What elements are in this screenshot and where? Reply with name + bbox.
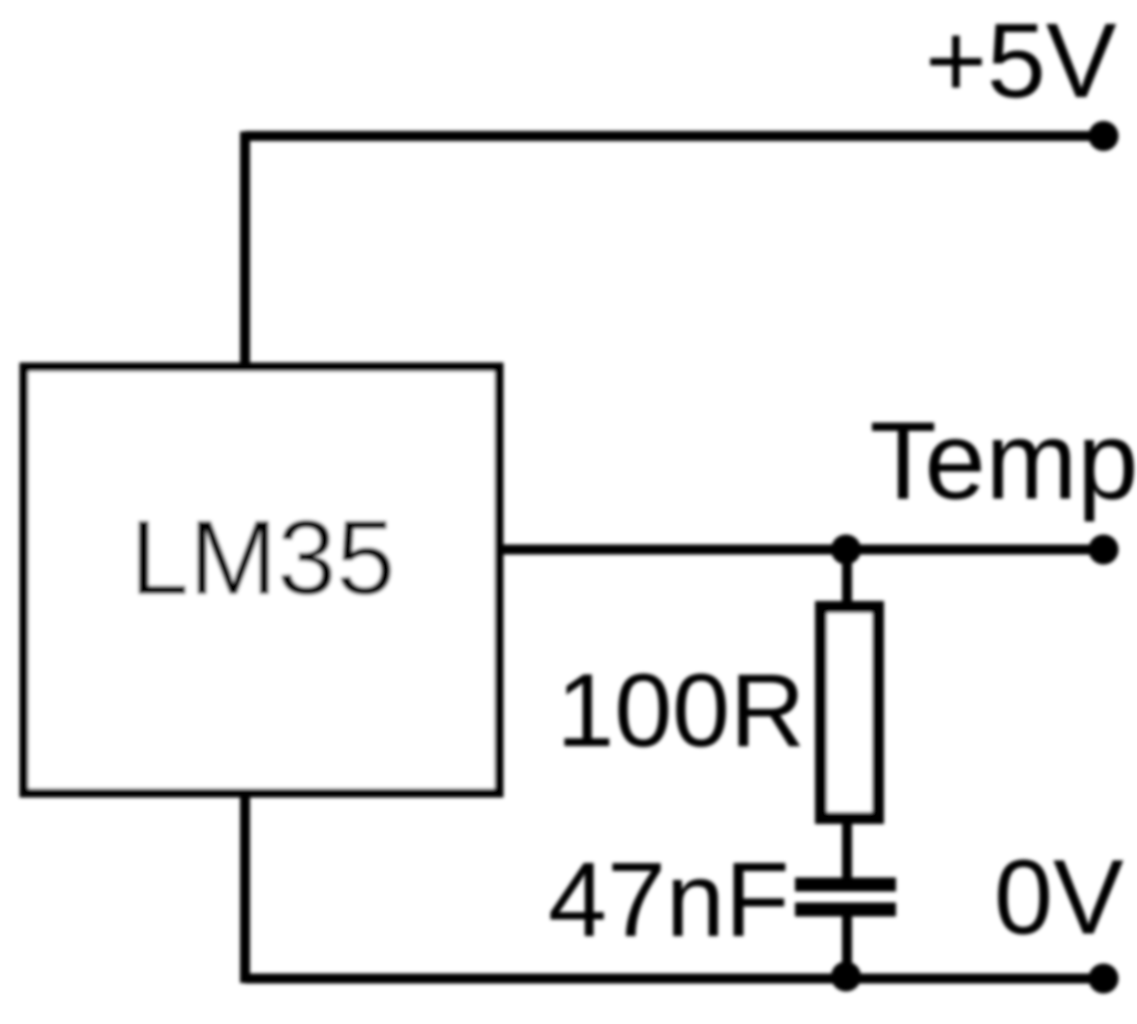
resistor R1 body [821,607,878,818]
IC U1 LM35 body [24,367,499,793]
wire: LM35 GND pin down to 0V rail [240,793,250,983]
wire: junction down to resistor R1 [842,550,852,607]
svg-text:47nF: 47nF [548,841,790,959]
node: 0V junction dot [831,962,861,992]
wire: LM35 Vs pin up to +5V rail [240,132,250,368]
svg-text:Temp: Temp [870,400,1137,523]
node: Temp junction dot [831,535,861,565]
svg-text:LM35: LM35 [130,499,395,617]
wire: resistor R1 to capacitor C1 [842,819,852,884]
capacitor C1 bottom plate [795,903,896,917]
svg-text:100R: 100R [557,653,806,769]
wire: Vout from LM35 to Temp terminal [499,545,1104,555]
capacitor C1 top plate [795,878,896,892]
wire: capacitor C1 down to 0V rail [842,909,852,978]
node: +5V terminal dot [1089,121,1119,151]
node: 0V terminal dot [1089,964,1119,994]
wire: +5V top rail [245,131,1104,141]
svg-text:0V: 0V [994,839,1124,957]
svg-text:+5V: +5V [925,2,1117,120]
wire: 0V bottom rail [245,974,1104,984]
node: Temp terminal dot [1089,535,1119,565]
